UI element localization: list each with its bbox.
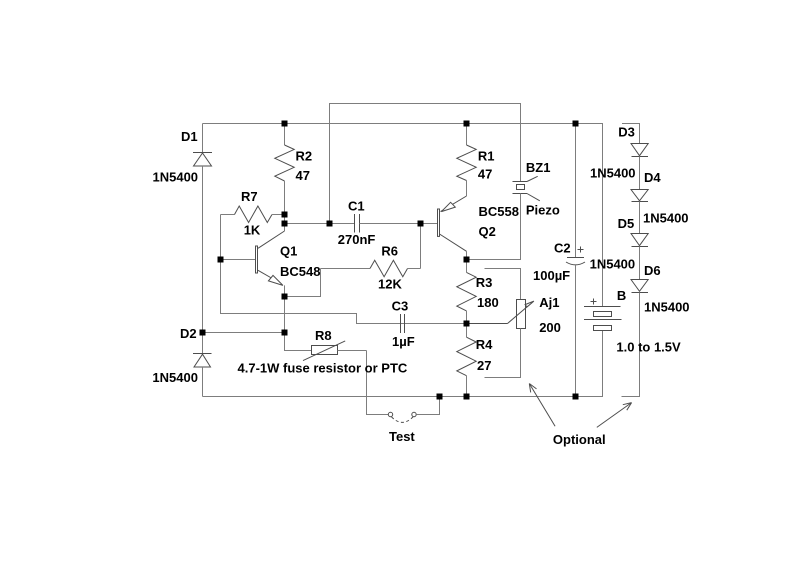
node Q2 collector: [464, 257, 470, 263]
svg-text:R2: R2: [296, 149, 313, 164]
capacitor C1: [355, 214, 360, 233]
wire BZ1 bottom to Q2 collector: [466, 194, 521, 260]
wire Q1 emitter vertical: [284, 297, 286, 333]
svg-text:1N5400: 1N5400: [590, 166, 636, 181]
resistor R2: [275, 145, 294, 181]
resistor R4: [457, 337, 476, 376]
svg-text:1N5400: 1N5400: [644, 300, 690, 315]
battery B: [584, 299, 622, 331]
svg-text:4.7-1W fuse resistor or PTC: 4.7-1W fuse resistor or PTC: [238, 361, 408, 376]
wire left rail upper (D1 branch): [202, 124, 204, 153]
wire R4 bottom lead: [466, 376, 468, 397]
wire battery bottom drop: [602, 331, 604, 397]
wire bottom rail: [203, 396, 604, 398]
svg-text:R7: R7: [241, 189, 258, 204]
svg-text:D4: D4: [644, 170, 661, 185]
wire D2 to emitter node: [203, 332, 285, 334]
wire Q1 emitter to R6 hook: [285, 269, 321, 297]
svg-text:Q2: Q2: [479, 224, 496, 239]
node top rail R1: [464, 121, 470, 127]
svg-text:R6: R6: [381, 244, 398, 259]
svg-text:200: 200: [539, 320, 561, 335]
arrow optional left: [529, 384, 555, 427]
wire D4-D5: [639, 202, 641, 234]
transistor Q2: [438, 196, 467, 260]
svg-text:BC558: BC558: [479, 204, 519, 219]
node switch right: [437, 394, 443, 400]
svg-text:1N5400: 1N5400: [152, 370, 198, 385]
buzzer BZ1: [513, 176, 540, 201]
svg-text:Piezo: Piezo: [526, 203, 560, 218]
svg-text:1µF: 1µF: [392, 334, 415, 349]
wire left vertical 2 and C3 left feed: [221, 215, 467, 324]
capacitor C3: [401, 314, 405, 333]
wire top rail: [203, 123, 604, 125]
svg-text:D2: D2: [180, 326, 197, 341]
svg-text:R8: R8: [315, 328, 332, 343]
svg-text:D1: D1: [181, 129, 198, 144]
trimmer Aj1: [467, 300, 534, 329]
wire upper C1-to-BZ1 link: [330, 104, 521, 224]
svg-text:1N5400: 1N5400: [153, 170, 199, 185]
svg-text:1N5400: 1N5400: [643, 211, 689, 226]
node R4 bottom: [464, 394, 470, 400]
transistor Q1: [256, 231, 285, 297]
wire R3 top lead: [466, 260, 468, 273]
resistor R1: [457, 145, 476, 181]
svg-text:47: 47: [296, 168, 310, 183]
resistor R6: [321, 260, 421, 276]
node C1 left: [327, 221, 333, 227]
svg-text:C2: C2: [554, 241, 571, 256]
wire diode-chain top stub: [622, 124, 640, 144]
svg-text:R4: R4: [476, 337, 493, 352]
node C2 bottom: [573, 394, 579, 400]
wire C1 right segment to Q2 base: [360, 223, 438, 225]
node D2 top: [200, 330, 206, 336]
svg-text:BZ1: BZ1: [526, 160, 551, 175]
svg-text:180: 180: [477, 295, 499, 310]
node R3-R4: [464, 321, 470, 327]
svg-text:1K: 1K: [244, 223, 261, 238]
wire R4 top lead: [466, 324, 468, 338]
wire R2 top lead: [284, 124, 286, 146]
resistor R7: [221, 206, 285, 223]
diode D1: [193, 153, 212, 167]
node emitter-D2: [282, 330, 288, 336]
svg-text:D6: D6: [644, 263, 661, 278]
svg-text:1N5400: 1N5400: [590, 257, 636, 272]
node R7 right: [282, 212, 288, 218]
svg-text:27: 27: [477, 358, 491, 373]
diode D3: [631, 144, 648, 157]
node Q1 emitter: [282, 294, 288, 300]
node top rail C2: [573, 121, 579, 127]
svg-text:Optional: Optional: [553, 432, 606, 447]
diode D6: [631, 280, 648, 293]
resistor R3: [457, 272, 476, 311]
svg-text:B: B: [617, 288, 626, 303]
arrow optional right: [597, 403, 632, 428]
svg-text:1.0 to 1.5V: 1.0 to 1.5V: [616, 340, 681, 355]
svg-text:100µF: 100µF: [533, 268, 570, 283]
node top rail R2: [282, 121, 288, 127]
svg-text:47: 47: [478, 167, 492, 182]
wire left rail middle: [202, 166, 204, 354]
svg-text:D3: D3: [618, 125, 635, 140]
wire R3 bottom lead: [466, 311, 468, 324]
svg-text:R3: R3: [476, 275, 493, 290]
svg-text:12K: 12K: [378, 277, 402, 292]
wire D5-D6: [639, 247, 641, 280]
diode D2: [193, 354, 212, 368]
diode D5: [631, 234, 648, 247]
wire Aj1 bottom lead: [485, 329, 521, 378]
wire R6 right riser: [420, 224, 422, 269]
node C1 feed: [282, 221, 288, 227]
wire diode-chain bottom stub: [622, 293, 640, 397]
wire D3-D4: [639, 157, 641, 190]
svg-text:BC548: BC548: [280, 264, 320, 279]
svg-text:Q1: Q1: [280, 244, 297, 259]
wire R1 top lead: [466, 124, 468, 146]
svg-text:Aj1: Aj1: [539, 295, 559, 310]
wire Aj1 top lead: [485, 269, 521, 300]
svg-text:C1: C1: [348, 199, 365, 214]
svg-text:D5: D5: [618, 216, 635, 231]
node Q1 base: [218, 257, 224, 263]
wire C1 left segment: [285, 223, 355, 225]
wire Q1 base lead: [221, 259, 256, 261]
wire left rail lower: [202, 367, 204, 397]
svg-text:270nF: 270nF: [338, 232, 376, 247]
wire R2 bottom lead: [284, 181, 286, 231]
resistor R8 (fuse): [285, 333, 367, 361]
node C1 right: [418, 221, 424, 227]
wire R1 bottom lead: [466, 181, 468, 197]
capacitor C2: [566, 124, 585, 397]
wire R8 down to test switch: [367, 351, 389, 415]
wire battery top drop: [602, 124, 604, 307]
switch Test: [388, 397, 439, 423]
svg-text:Test: Test: [389, 429, 415, 444]
svg-text:C3: C3: [392, 299, 409, 314]
svg-text:R1: R1: [478, 149, 495, 164]
diode D4: [631, 190, 648, 202]
